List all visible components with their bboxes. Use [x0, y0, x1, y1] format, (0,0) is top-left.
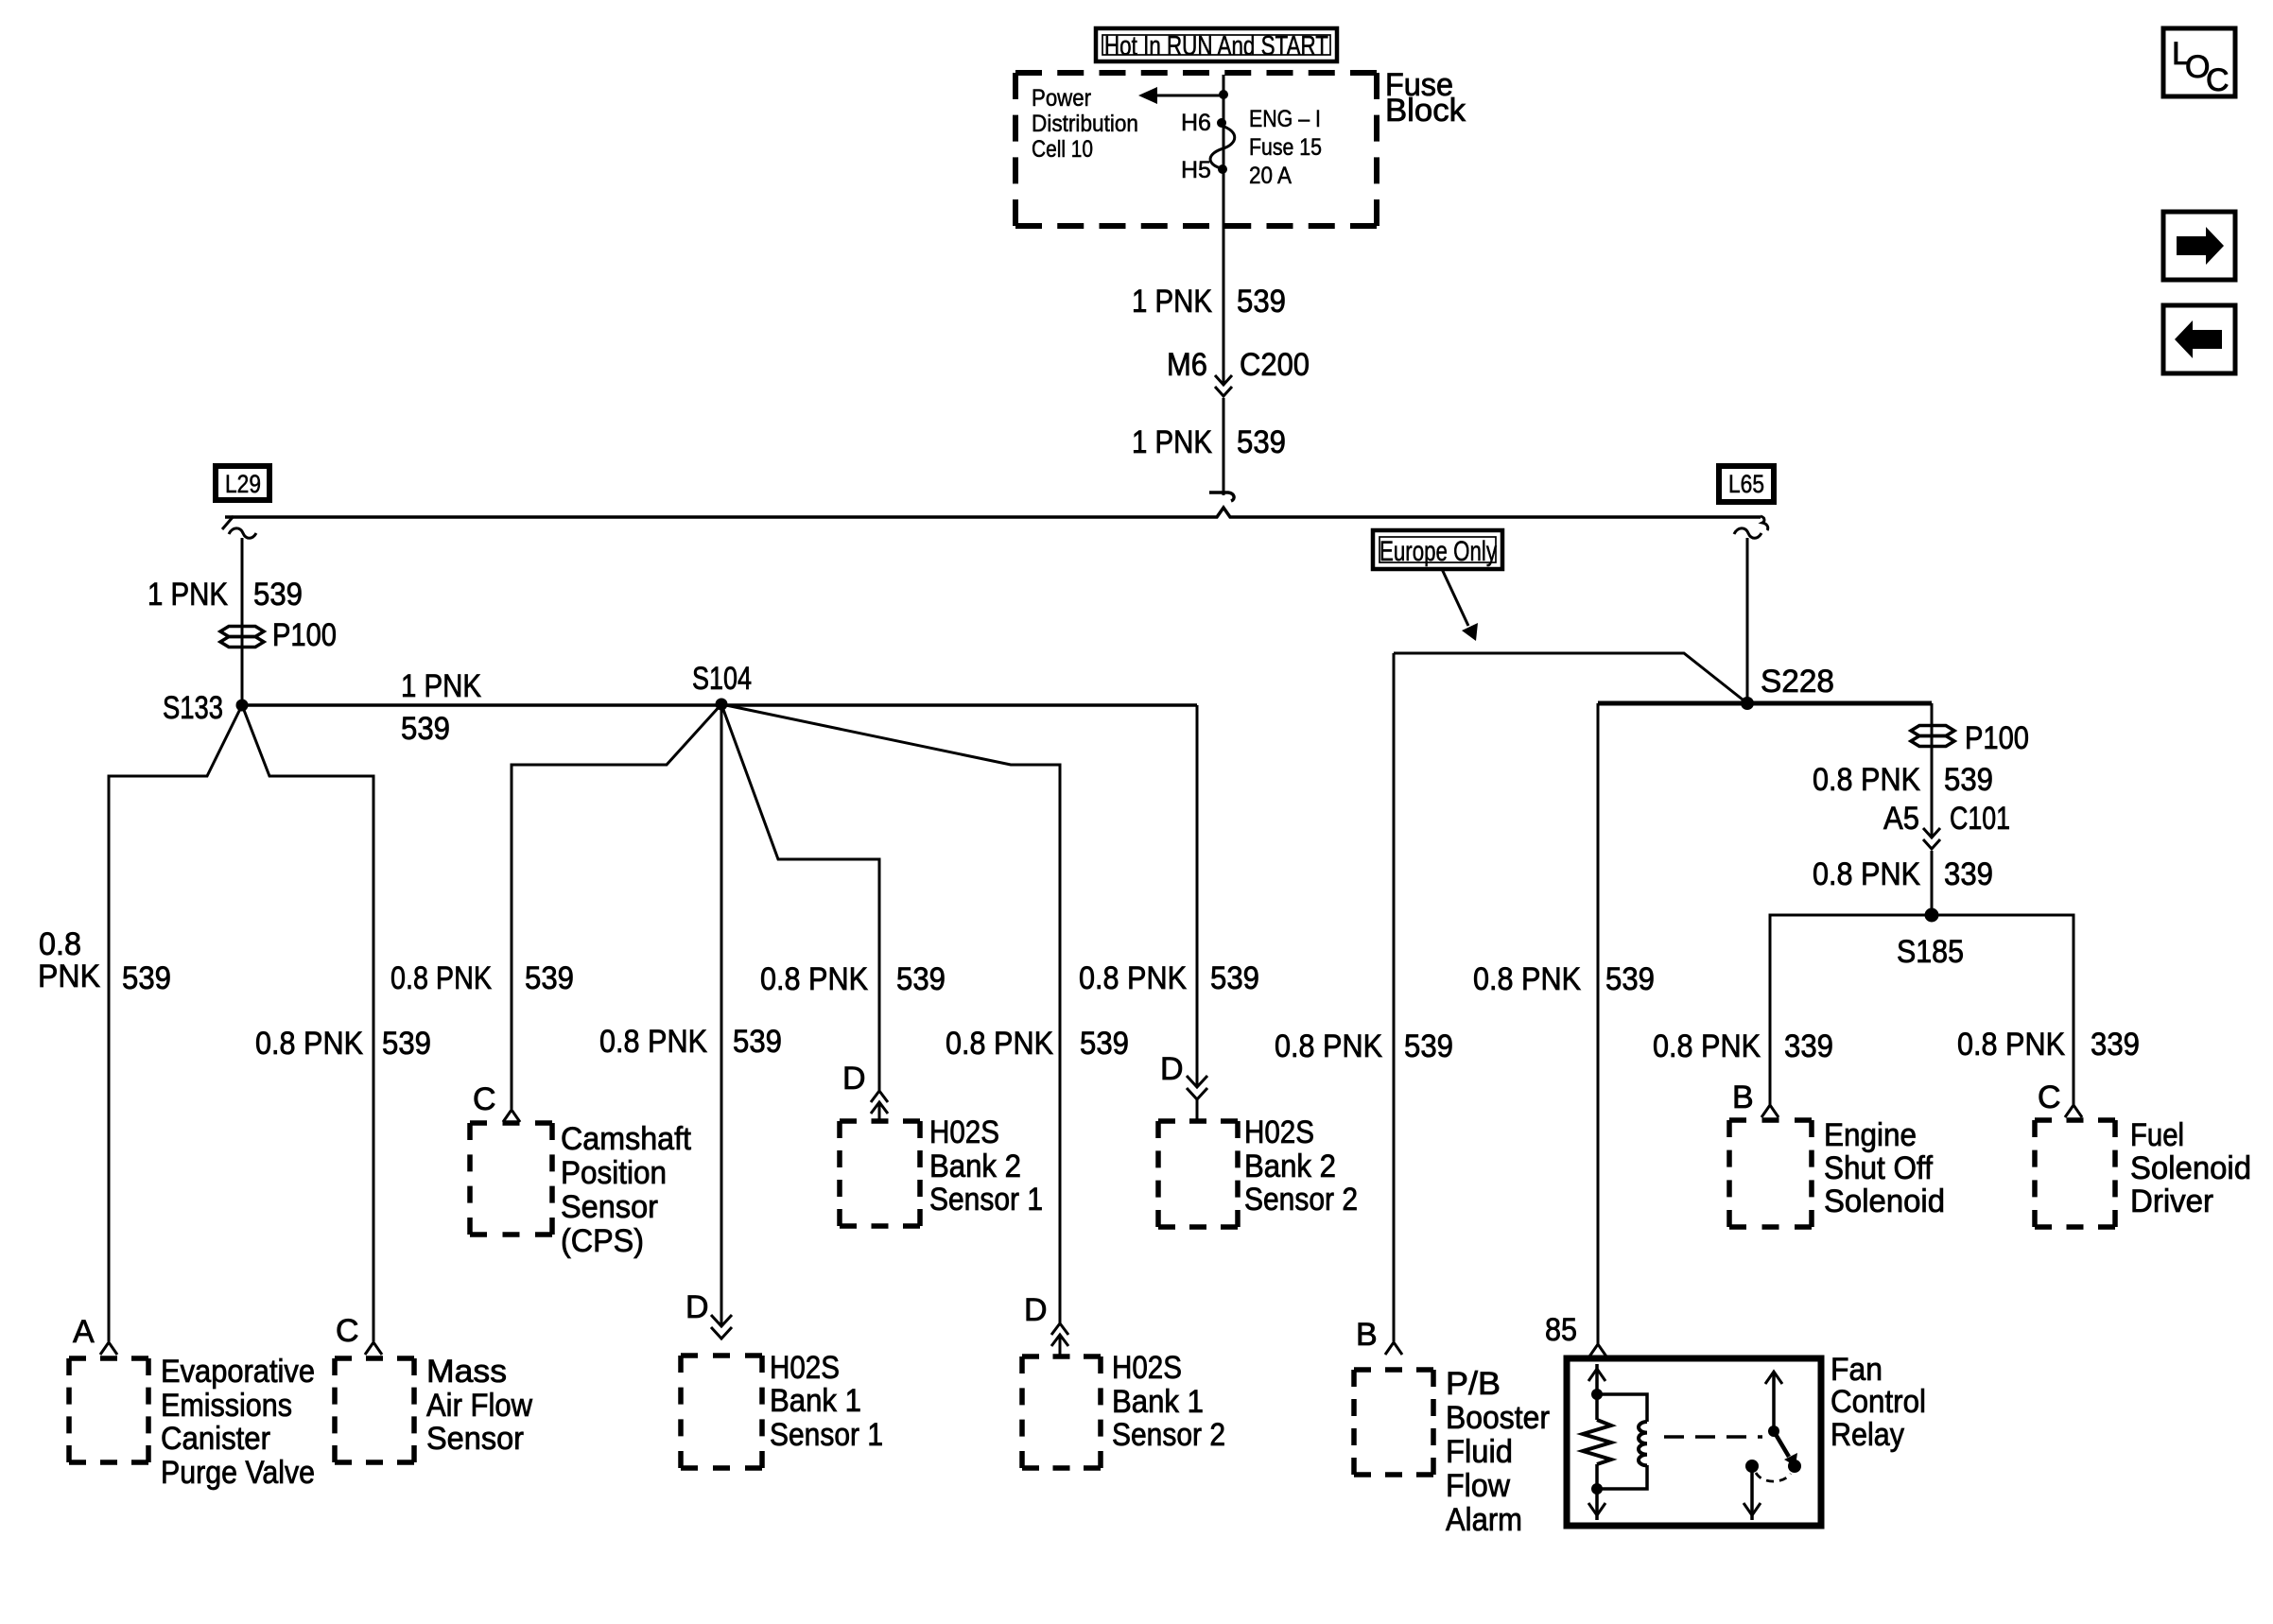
node junction at arrow — [1219, 90, 1228, 99]
svg-text:0.8 PNK: 0.8 PNK — [255, 1026, 363, 1062]
svg-text:0.8 PNK: 0.8 PNK — [1813, 856, 1920, 892]
component box HO2S bank2 sensor2 — [1158, 1114, 1358, 1227]
terminal arrow C fuel solenoid — [2065, 1105, 2082, 1117]
pass-through grommet P100 right — [1911, 720, 2029, 756]
junction node coil top — [1591, 1389, 1603, 1400]
wire S133 to evaporative canister purge valve — [109, 705, 242, 1341]
wire break curl above bus — [1209, 492, 1234, 501]
svg-text:D: D — [1024, 1292, 1048, 1328]
svg-text:Sensor: Sensor — [561, 1189, 658, 1225]
corner nav box arrow left — [2163, 305, 2235, 373]
svg-text:Driver: Driver — [2130, 1183, 2213, 1219]
svg-text:339: 339 — [1784, 1028, 1833, 1064]
svg-text:539: 539 — [253, 577, 303, 613]
wire label 0.8 PNK 539 b1s1 — [599, 1024, 782, 1060]
svg-text:Canister: Canister — [161, 1421, 270, 1457]
wire S104 to HO2S bank1 sensor1 — [720, 704, 723, 1325]
svg-text:0.8 PNK: 0.8 PNK — [1813, 762, 1920, 798]
svg-text:H02S: H02S — [1112, 1350, 1182, 1386]
europe only pointer arrow — [1442, 569, 1478, 641]
splice node S104 — [692, 661, 752, 711]
svg-text:0.8 PNK: 0.8 PNK — [1275, 1028, 1382, 1064]
wire label 1 PNK 539 lower — [1132, 424, 1286, 460]
wire S104 to HO2S bank1 sensor2 — [721, 704, 1060, 1323]
svg-text:0.8: 0.8 — [39, 926, 81, 962]
svg-text:Fan: Fan — [1831, 1352, 1883, 1388]
relay pin arrow down inside bottom — [1588, 1503, 1605, 1515]
svg-text:539: 539 — [896, 961, 946, 997]
wire label 0.8 PNK 339 fuel solenoid — [1957, 1027, 2140, 1063]
svg-text:0.8 PNK: 0.8 PNK — [1957, 1027, 2065, 1063]
wire label 1 PNK 539 upper — [1132, 284, 1286, 320]
bus right end curl — [1761, 516, 1768, 530]
bus left end curl — [222, 516, 234, 529]
svg-text:539: 539 — [1404, 1028, 1453, 1064]
connector arrow D b1s2 double chevron up — [1051, 1323, 1068, 1346]
svg-text:Flow: Flow — [1446, 1468, 1510, 1504]
svg-text:Fluid: Fluid — [1446, 1434, 1513, 1470]
wire label 0.8 PNK 539 maf — [255, 1026, 431, 1062]
svg-text:339: 339 — [1944, 856, 1993, 892]
wire label 0.8 PNK 339 right — [1813, 856, 1993, 892]
component box mass air flow sensor — [335, 1354, 532, 1462]
fuse ENG-I element squiggle — [1210, 126, 1235, 168]
resistor inside relay — [1583, 1420, 1611, 1464]
svg-text:Mass: Mass — [426, 1354, 507, 1390]
relay switch blade — [1774, 1431, 1797, 1466]
relay switch common arrow up — [1772, 1373, 1776, 1431]
svg-text:S133: S133 — [163, 690, 223, 726]
svg-text:Purge Valve: Purge Valve — [161, 1455, 315, 1491]
component box HO2S bank2 sensor1 — [840, 1114, 1043, 1226]
svg-text:S104: S104 — [692, 661, 752, 697]
svg-text:Sensor 2: Sensor 2 — [1244, 1182, 1358, 1218]
wire S185 to fuel solenoid driver — [1932, 915, 2073, 1105]
junction node coil bottom — [1591, 1483, 1603, 1494]
svg-text:(CPS): (CPS) — [561, 1223, 644, 1259]
terminal arrow A evap — [100, 1342, 117, 1355]
terminal arrow B engine shutoff — [1761, 1105, 1778, 1117]
svg-text:A5: A5 — [1883, 801, 1919, 837]
component box evaporative emissions canister purge valve — [69, 1354, 315, 1491]
wire label 0.8 PNK 539 right — [1813, 762, 1993, 798]
terminal arrow C maf — [365, 1342, 382, 1355]
fuse value label ENG-I Fuse 15 20 A — [1249, 106, 1322, 189]
splice node S228 — [1741, 664, 1834, 710]
svg-text:539: 539 — [1237, 424, 1286, 460]
svg-text:ENG – I: ENG – I — [1249, 106, 1321, 132]
wire from hot feed down through fuse — [1223, 75, 1225, 383]
wire drop to P/B booster alarm — [1393, 653, 1396, 1341]
wire label 1 PNK 539 on S133-S104 run — [401, 668, 481, 747]
label Power Distribution Cell 10 — [1032, 85, 1138, 163]
corner nav box arrow right — [2163, 212, 2235, 280]
svg-text:539: 539 — [401, 711, 450, 747]
terminal arrow 85 fan relay — [1589, 1344, 1606, 1356]
svg-text:B: B — [1356, 1317, 1378, 1353]
svg-text:D: D — [1160, 1051, 1184, 1087]
svg-text:Booster: Booster — [1446, 1400, 1550, 1436]
dashed travel arc between contacts — [1756, 1473, 1791, 1481]
splice node S185 — [1897, 908, 1964, 971]
wire bus to HO2S bank2 sensor2 — [1196, 705, 1199, 1087]
wire drop from L65 with break curl — [1734, 528, 1761, 703]
svg-text:1 PNK: 1 PNK — [1132, 284, 1212, 320]
svg-text:85: 85 — [1545, 1312, 1577, 1348]
wire label 0.8 PNK 539 b2s1 — [760, 961, 946, 997]
svg-text:539: 539 — [1080, 1026, 1129, 1062]
wire S228 right to C101 — [1747, 701, 1932, 706]
component box PB booster fluid flow alarm — [1354, 1366, 1550, 1538]
wire europe only branch to S228 — [1394, 653, 1747, 703]
svg-text:0.8 PNK: 0.8 PNK — [390, 960, 492, 996]
connector arrow D b1s1 double chevron down — [711, 1315, 732, 1339]
svg-text:C: C — [473, 1081, 496, 1117]
svg-text:539: 539 — [1237, 284, 1286, 320]
svg-text:P100: P100 — [272, 617, 337, 653]
svg-text:S185: S185 — [1897, 934, 1964, 970]
corner legend box LOC — [2163, 28, 2235, 98]
relay name label — [1831, 1352, 1926, 1453]
svg-text:Camshaft: Camshaft — [561, 1121, 692, 1157]
svg-text:H02S: H02S — [1244, 1114, 1314, 1150]
connector arrow D b2s2 double chevron down — [1187, 1076, 1207, 1099]
relay switch pivot node — [1768, 1425, 1779, 1437]
wire S228 to fan control relay — [1598, 701, 1747, 706]
svg-text:0.8 PNK: 0.8 PNK — [760, 961, 868, 997]
svg-text:Europe Only: Europe Only — [1379, 536, 1497, 567]
svg-text:Emissions: Emissions — [161, 1388, 292, 1424]
wire C101 to S185 — [1931, 851, 1934, 915]
wire label 0.8 PNK 539 b2s2 — [1079, 960, 1259, 996]
splice node S133 — [163, 690, 249, 726]
svg-text:339: 339 — [2091, 1027, 2140, 1063]
svg-text:H02S: H02S — [770, 1350, 840, 1386]
svg-text:Bank 2: Bank 2 — [929, 1149, 1021, 1184]
svg-text:H02S: H02S — [929, 1114, 999, 1150]
svg-text:0.8 PNK: 0.8 PNK — [599, 1024, 707, 1060]
svg-text:539: 539 — [1944, 762, 1993, 798]
svg-text:20 A: 20 A — [1249, 163, 1292, 189]
svg-text:C: C — [2206, 62, 2230, 98]
svg-text:Fuel: Fuel — [2130, 1117, 2184, 1153]
connector arrow D b2s1 double chevron up — [871, 1091, 888, 1114]
node L29 label box — [216, 466, 269, 500]
svg-text:Bank 1: Bank 1 — [1112, 1384, 1204, 1420]
node L65 label box — [1719, 466, 1774, 502]
svg-text:539: 539 — [382, 1026, 431, 1062]
relay box fan control relay — [1567, 1358, 1821, 1526]
svg-text:C: C — [2038, 1080, 2061, 1115]
svg-text:Cell 10: Cell 10 — [1032, 136, 1093, 163]
wire label 0.8 PNK 539 fan relay — [1473, 961, 1655, 997]
wire S104 to HO2S bank2 sensor1 — [721, 704, 879, 1091]
svg-text:Sensor: Sensor — [426, 1421, 524, 1457]
component box engine shut off solenoid — [1729, 1117, 1945, 1227]
svg-text:1 PNK: 1 PNK — [1132, 424, 1212, 460]
wire label 0.8 PNK 339 engine shutoff — [1653, 1028, 1833, 1064]
svg-text:539: 539 — [1210, 960, 1259, 996]
svg-text:Sensor 2: Sensor 2 — [1112, 1417, 1225, 1453]
relay contact node right — [1788, 1460, 1801, 1473]
svg-text:539: 539 — [122, 960, 171, 996]
terminal arrow C cps — [503, 1110, 520, 1122]
svg-text:539: 539 — [733, 1024, 782, 1060]
svg-text:1 PNK: 1 PNK — [401, 668, 481, 704]
svg-text:C101: C101 — [1950, 801, 2010, 837]
wire S104 to camshaft position sensor — [512, 704, 721, 1109]
svg-text:Solenoid: Solenoid — [2130, 1150, 2251, 1186]
label box Europe Only — [1373, 530, 1502, 569]
label box Hot In RUN And START — [1096, 28, 1337, 61]
wire below C200 — [1223, 398, 1225, 495]
pass-through grommet P100 left — [220, 617, 337, 653]
svg-text:D: D — [685, 1289, 709, 1325]
wire label 0.8 PNK 539 evap — [38, 926, 171, 996]
svg-text:Engine: Engine — [1824, 1117, 1917, 1153]
connector C101 pin A5 — [1883, 801, 2010, 849]
svg-text:0.8 PNK: 0.8 PNK — [946, 1026, 1053, 1062]
svg-text:Block: Block — [1385, 93, 1466, 129]
svg-text:M6: M6 — [1167, 347, 1207, 383]
svg-text:Air Flow: Air Flow — [426, 1388, 532, 1424]
svg-text:0.8 PNK: 0.8 PNK — [1473, 961, 1581, 997]
relay contact node left — [1745, 1460, 1759, 1473]
connector C200 pin M6 — [1167, 347, 1310, 396]
svg-text:P100: P100 — [1965, 720, 2029, 756]
svg-text:Bank 2: Bank 2 — [1244, 1149, 1336, 1184]
svg-text:C200: C200 — [1240, 347, 1310, 383]
svg-text:Power: Power — [1032, 85, 1091, 112]
svg-text:539: 539 — [525, 960, 574, 996]
relay pin arrow up inside top — [1588, 1369, 1605, 1381]
component box camshaft position sensor CPS — [470, 1121, 692, 1259]
dashed actuation link — [1664, 1435, 1762, 1439]
wire S185 to engine shut off solenoid — [1770, 915, 1932, 1105]
svg-text:C: C — [336, 1313, 359, 1349]
svg-text:Shut Off: Shut Off — [1824, 1150, 1934, 1186]
wire S133 to mass air flow sensor — [242, 705, 373, 1341]
svg-text:539: 539 — [1605, 961, 1655, 997]
svg-text:Position: Position — [561, 1155, 667, 1191]
svg-text:1 PNK: 1 PNK — [147, 577, 228, 613]
wire drop from L29 with break curl — [229, 528, 256, 705]
fuse block name label — [1385, 67, 1466, 129]
svg-text:D: D — [842, 1061, 866, 1097]
svg-text:Alarm: Alarm — [1446, 1502, 1522, 1538]
wire label 1 PNK 539 left drop — [147, 577, 303, 613]
component box HO2S bank1 sensor2 — [1022, 1350, 1225, 1468]
svg-text:L65: L65 — [1728, 470, 1764, 498]
coil inductor inside relay — [1597, 1394, 1647, 1489]
svg-text:Sensor 1: Sensor 1 — [770, 1417, 883, 1453]
svg-text:Sensor 1: Sensor 1 — [929, 1182, 1043, 1218]
svg-text:Solenoid: Solenoid — [1824, 1183, 1945, 1219]
arrow to power distribution — [1138, 87, 1223, 104]
svg-text:S228: S228 — [1761, 664, 1834, 700]
svg-text:Evaporative: Evaporative — [161, 1354, 315, 1390]
fuse block dashed box — [1015, 73, 1377, 226]
svg-text:H6: H6 — [1181, 110, 1211, 136]
svg-text:PNK: PNK — [38, 959, 100, 994]
svg-text:L29: L29 — [225, 470, 261, 498]
svg-text:Fuse 15: Fuse 15 — [1249, 134, 1322, 161]
component box HO2S bank1 sensor1 — [681, 1350, 883, 1468]
svg-text:Control: Control — [1831, 1384, 1926, 1420]
wire S133 to S104 to B2S2 drop — [242, 703, 1197, 707]
svg-text:B: B — [1732, 1080, 1754, 1115]
wire label 0.8 PNK 539 pb booster — [1275, 1028, 1453, 1064]
terminal arrow B pb booster — [1385, 1342, 1402, 1355]
component box fuel solenoid driver — [2035, 1117, 2251, 1227]
svg-text:0.8 PNK: 0.8 PNK — [1079, 960, 1187, 996]
svg-text:A: A — [73, 1314, 95, 1350]
svg-text:P/B: P/B — [1446, 1366, 1501, 1402]
svg-text:0.8 PNK: 0.8 PNK — [1653, 1028, 1761, 1064]
relay output wire with arrow down — [1744, 1465, 1761, 1520]
bus wire L29 to L65 with feed hump — [225, 508, 1761, 517]
relay coil pin wire left vertical — [1595, 1364, 1599, 1420]
svg-text:Hot In RUN And START: Hot In RUN And START — [1104, 31, 1328, 61]
wire label 0.8 PNK 539 b1s2 — [946, 1026, 1129, 1062]
svg-text:Relay: Relay — [1831, 1417, 1904, 1453]
svg-text:Bank 1: Bank 1 — [770, 1383, 861, 1419]
svg-text:Distribution: Distribution — [1032, 111, 1138, 137]
svg-text:H5: H5 — [1181, 157, 1211, 183]
wire label 0.8 PNK 539 cps — [390, 960, 574, 996]
